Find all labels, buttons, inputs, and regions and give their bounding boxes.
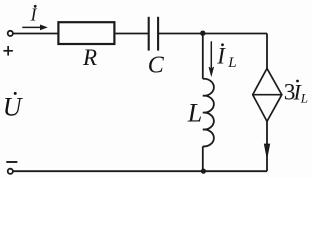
node A junction dot (200, 31, 205, 36)
resistor R box (58, 22, 114, 44)
arrow IL (209, 41, 214, 75)
wire resistor to capacitor (114, 33, 148, 35)
svg-text:I: I (30, 5, 38, 25)
current arrow I (22, 25, 46, 30)
label IL (inductor current) (216, 43, 236, 71)
svg-text:L: L (187, 99, 202, 128)
svg-text:L: L (300, 91, 308, 106)
inductor L coil (203, 79, 214, 147)
wire top-right corner down to source (266, 34, 268, 69)
wire terminal to resistor (13, 33, 58, 35)
wire node A down to inductor (202, 34, 204, 79)
plus sign (3, 46, 13, 56)
svg-text:L: L (227, 55, 236, 71)
label 3IL (controlled source value) (284, 79, 308, 105)
minus sign (6, 161, 17, 163)
wire source to bottom-right corner (266, 121, 268, 171)
label U (source voltage) (3, 92, 24, 122)
svg-text:I: I (216, 44, 226, 69)
terminal + (top-left) (8, 31, 13, 36)
svg-text:C: C (148, 53, 165, 79)
svg-text:R: R (82, 45, 97, 70)
capacitor C left plate (148, 17, 150, 51)
wire capacitor to node A (158, 33, 267, 35)
terminal - (bottom-left) (8, 169, 13, 174)
bottom node junction dot (201, 169, 206, 174)
wire inductor to bottom node (202, 146, 204, 171)
source direction arrowhead (264, 144, 269, 158)
diamond middle chord (253, 94, 282, 96)
svg-text:U: U (3, 93, 24, 122)
label I (source current) (30, 5, 38, 25)
capacitor C right plate (157, 17, 159, 51)
bottom wire (13, 170, 267, 172)
dependent source diamond (253, 68, 282, 121)
